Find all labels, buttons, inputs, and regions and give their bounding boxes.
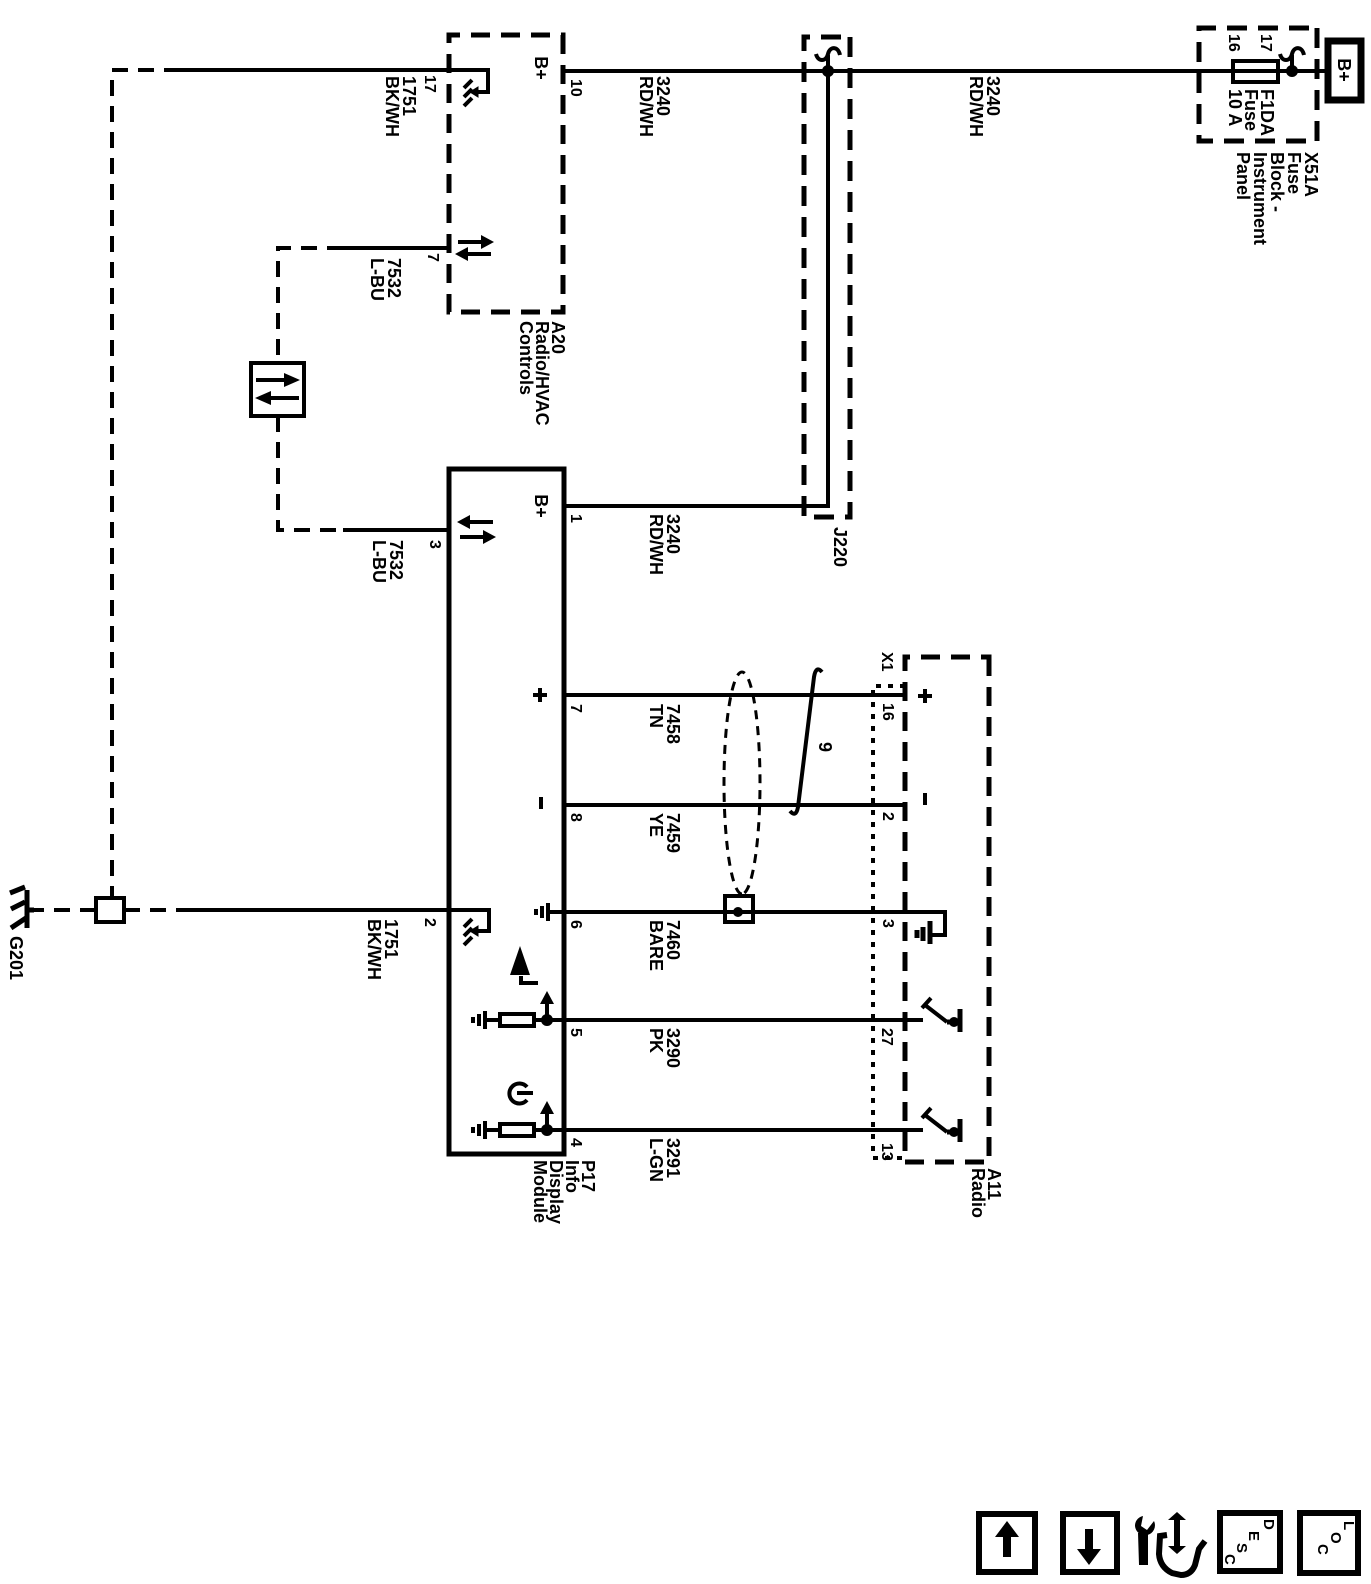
junction dot J220: [822, 65, 834, 77]
nav icon LOC box: [1300, 1513, 1358, 1573]
nav icon DESC box: [1220, 1513, 1280, 1571]
P17 plus symbol at pin 7: [533, 688, 547, 702]
output arrow at pin 5: [545, 1004, 549, 1020]
resistor at pin 5: [500, 1014, 534, 1026]
fuse F1DA: [1233, 61, 1278, 82]
svg-text:17: 17: [1257, 34, 1274, 52]
P17 serial data arrows at pin 3: [460, 535, 483, 539]
svg-text:7: 7: [567, 704, 584, 713]
svg-text:L: L: [1340, 1521, 1357, 1530]
component A20 Radio/HVAC Controls dashed box: [449, 35, 563, 312]
svg-text:C: C: [1314, 1544, 1331, 1555]
wire 7459 YE P17 pin 8 to A11 pin 2: [564, 803, 907, 807]
svg-text:9: 9: [815, 742, 835, 752]
wire square to G201: [34, 908, 96, 912]
svg-text:8: 8: [567, 813, 584, 822]
A11 switch at pin 27: [922, 998, 947, 1022]
wire 3291 L-GN P17 pin 4 to A11 pin 13: [564, 1128, 923, 1132]
X1 connector dotted line: [873, 686, 905, 1158]
wire 7532 L-BU A20 pin 7 to in-line connector: [343, 246, 449, 250]
A11 plus symbol: [918, 689, 932, 703]
P17 internal case ground at pin 2: [449, 910, 489, 931]
splice hook at J220: [816, 48, 840, 71]
svg-text:D: D: [1260, 1519, 1277, 1530]
svg-text:7532L-BU: 7532L-BU: [367, 258, 404, 301]
P17 minus symbol at pin 8: [539, 797, 543, 809]
wire 3290 PK P17 pin 5 to A11 pin 27: [564, 1018, 923, 1022]
svg-text:16: 16: [879, 703, 896, 721]
svg-text:10: 10: [567, 79, 584, 97]
svg-text:O: O: [1327, 1532, 1344, 1544]
svg-text:4: 4: [567, 1138, 584, 1147]
component P17 Info Display Module box: [449, 469, 564, 1154]
svg-text:3290PK: 3290PK: [646, 1028, 683, 1068]
shield drain square: [725, 896, 753, 922]
junction dot shield: [733, 907, 743, 917]
A11 minus symbol: [923, 793, 927, 805]
svg-text:2: 2: [421, 918, 438, 927]
wire through shield square: [725, 910, 753, 914]
svg-text:B+: B+: [531, 494, 551, 518]
svg-text:B+: B+: [1334, 58, 1354, 82]
svg-text:5: 5: [567, 1028, 584, 1037]
svg-text:17: 17: [421, 75, 438, 93]
svg-text:7458TN: 7458TN: [646, 704, 683, 744]
fuse block X51A dashed box: [1199, 28, 1317, 141]
junction dot pin 4: [541, 1124, 553, 1136]
svg-text:27: 27: [878, 1028, 895, 1046]
harness slash 9: [790, 669, 822, 813]
svg-text:B+: B+: [531, 56, 551, 80]
in-line connector box on serial data line: [251, 363, 304, 416]
power node B+: [1328, 41, 1361, 100]
A20 internal case ground at pin 17: [449, 70, 488, 92]
svg-text:1751BK/WH: 1751BK/WH: [364, 919, 401, 980]
svg-text:7460BARE: 7460BARE: [646, 920, 683, 971]
junction dot pin 5: [541, 1014, 553, 1026]
svg-text:G201: G201: [6, 936, 26, 980]
svg-text:C: C: [1221, 1554, 1238, 1565]
svg-text:1751BK/WH: 1751BK/WH: [382, 76, 419, 137]
splice hook at fuse feed: [1280, 48, 1304, 71]
wire 7532 L-BU in-line connector to P17 pin 3: [278, 416, 343, 530]
svg-text:6: 6: [567, 920, 584, 929]
wire 3240 RD/WH battery rail: [563, 69, 1328, 73]
svg-text:E: E: [1245, 1531, 1262, 1541]
wire 1751 BK/WH A20 pin 17 to ground run: [180, 68, 449, 72]
svg-text:3240RD/WH: 3240RD/WH: [636, 76, 673, 137]
standby power symbol: [509, 1084, 527, 1104]
wire 7458 TN P17 pin 7 to A11 pin 16: [564, 693, 907, 697]
svg-text:3291L-GN: 3291L-GN: [646, 1138, 683, 1182]
svg-text:3: 3: [879, 919, 896, 928]
svg-text:F1DAFuse10 A: F1DAFuse10 A: [1225, 89, 1277, 136]
svg-text:3: 3: [426, 540, 443, 549]
ground under pin 4 resistor: [473, 1121, 500, 1139]
svg-text:13: 13: [878, 1143, 895, 1161]
P17 internal chassis ground at pin 6: [536, 903, 564, 921]
svg-text:S: S: [1233, 1543, 1250, 1553]
svg-text:7532L-BU: 7532L-BU: [369, 540, 406, 583]
in-line connector square on ground run: [96, 898, 124, 922]
svg-text:A11Radio: A11Radio: [968, 1168, 1004, 1218]
A11 switch at pin 13: [922, 1108, 947, 1132]
in-line connector arrows: [256, 378, 284, 382]
wire 7460 BARE P17 pin 6 to A11 pin 3: [564, 912, 945, 935]
ground G201 symbol: [27, 890, 34, 928]
svg-text:P17InfoDisplayModule: P17InfoDisplayModule: [530, 1160, 598, 1224]
svg-text:2: 2: [879, 812, 896, 821]
A20 serial data arrows at pin 7: [458, 240, 481, 244]
svg-text:7459YE: 7459YE: [646, 813, 683, 853]
wire 1751 BK/WH square to P17 pin 2: [124, 908, 189, 912]
svg-text:A20Radio/HVACControls: A20Radio/HVACControls: [516, 321, 568, 426]
P17 pin 5 wire stub to resistor: [534, 1018, 564, 1022]
resistor at pin 4: [500, 1124, 534, 1136]
svg-text:1: 1: [567, 514, 584, 523]
component A11 Radio dashed box: [905, 657, 989, 1162]
svg-text:X51AFuseBlock -InstrumentPanel: X51AFuseBlock -InstrumentPanel: [1233, 152, 1321, 245]
svg-text:3240RD/WH: 3240RD/WH: [646, 514, 683, 575]
junction dot at fuse feed: [1286, 65, 1298, 77]
splice J220 dashed box: [804, 37, 850, 517]
svg-text:3240RD/WH: 3240RD/WH: [966, 76, 1003, 137]
nav icon diagnostic wrench: [1135, 1512, 1205, 1575]
nav icon next page: [1063, 1514, 1117, 1572]
output arrow at pin 4: [545, 1114, 549, 1130]
svg-text:16: 16: [1225, 34, 1242, 52]
wire 3240 RD/WH J220 branch to P17 pin 1: [564, 71, 828, 506]
svg-text:J220: J220: [830, 527, 850, 567]
ground under pin 5 resistor: [473, 1011, 500, 1029]
nav icon previous page: [979, 1514, 1035, 1572]
A11 internal ground at pin 3: [917, 921, 930, 944]
P17 pin 4 wire stub to resistor: [534, 1128, 564, 1132]
twisted pair ellipse: [724, 672, 760, 894]
svg-text:7: 7: [424, 253, 441, 262]
dimming arrow symbol: [510, 946, 530, 975]
svg-text:X1: X1: [878, 652, 895, 672]
